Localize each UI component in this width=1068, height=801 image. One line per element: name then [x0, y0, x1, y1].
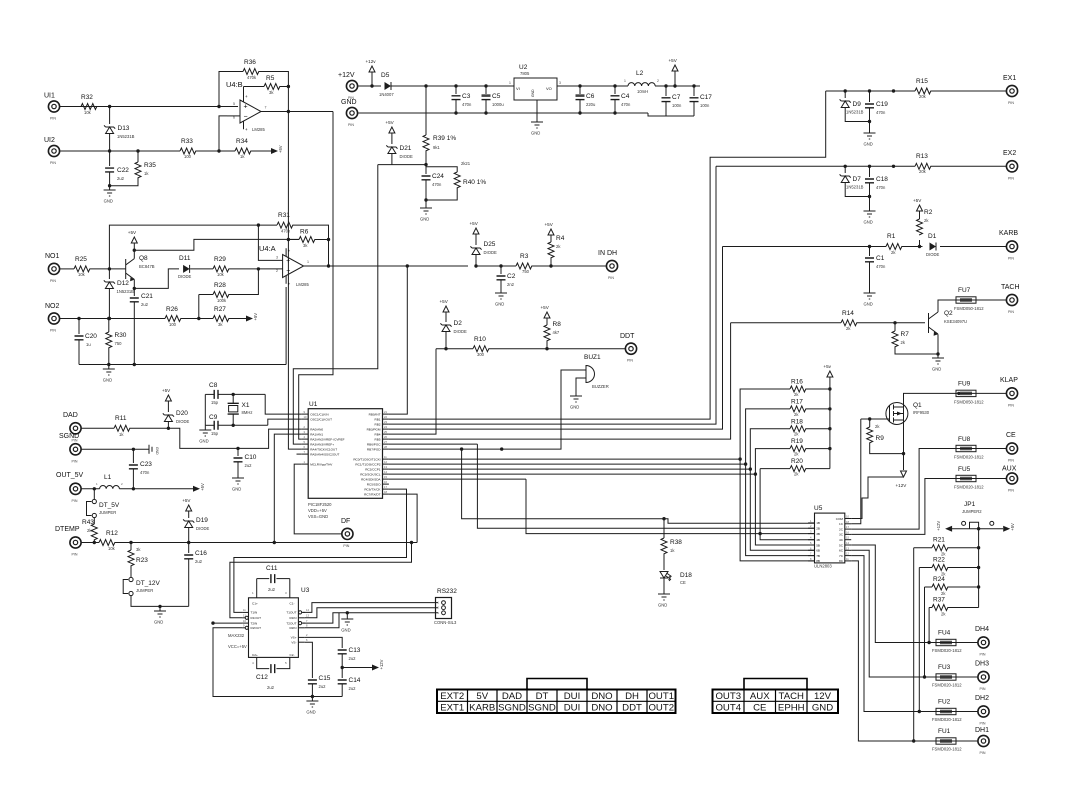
bracket DT DUI	[527, 679, 587, 690]
transistor Q2	[929, 312, 939, 334]
wire	[81, 542, 99, 544]
svg-text:DIODE: DIODE	[484, 250, 497, 255]
svg-text:FSMD050-1812: FSMD050-1812	[954, 400, 984, 405]
pin +12V	[346, 80, 357, 91]
svg-text:8MHz: 8MHz	[242, 410, 253, 415]
pin SGND	[70, 444, 81, 455]
ground	[199, 430, 211, 436]
svg-text:OUT4: OUT4	[715, 703, 741, 714]
junction	[311, 695, 314, 698]
wire	[425, 200, 427, 208]
wire	[976, 392, 1006, 394]
svg-text:Q1: Q1	[913, 402, 922, 409]
junction	[892, 89, 895, 92]
svg-text:R34: R34	[236, 138, 248, 145]
svg-text:D7: D7	[853, 176, 862, 183]
svg-text:DT: DT	[536, 691, 549, 702]
wire	[806, 388, 830, 390]
wire	[293, 225, 329, 239]
wire	[131, 596, 189, 607]
wire	[199, 294, 213, 296]
pin DH4	[978, 637, 989, 648]
svg-text:MCLR/Vpp/THV: MCLR/Vpp/THV	[310, 462, 333, 466]
svg-text:D18: D18	[680, 572, 692, 579]
svg-text:C6: C6	[586, 93, 595, 100]
svg-text:+12V: +12V	[896, 483, 908, 488]
svg-text:PIN: PIN	[1008, 459, 1014, 463]
wire	[976, 478, 1006, 480]
svg-text:+5V: +5V	[440, 299, 449, 304]
wire	[115, 542, 417, 544]
svg-text:RS232: RS232	[437, 588, 457, 595]
wire	[389, 323, 731, 439]
wire	[188, 543, 190, 554]
svg-text:+5V: +5V	[913, 198, 922, 203]
wire	[976, 299, 1006, 301]
pin KLAP	[1006, 388, 1017, 399]
wire	[445, 312, 447, 322]
svg-text:470k: 470k	[281, 229, 291, 234]
svg-text:+12v: +12v	[366, 59, 377, 64]
wire	[134, 269, 179, 289]
svg-text:U4:B: U4:B	[226, 80, 243, 89]
svg-text:DAD: DAD	[63, 412, 78, 419]
wire	[948, 586, 979, 588]
svg-text:GND: GND	[306, 710, 315, 715]
pin TACH	[1006, 294, 1017, 305]
svg-text:100: 100	[184, 154, 192, 159]
junction	[158, 605, 161, 608]
wire	[392, 85, 515, 87]
wire	[261, 111, 333, 113]
wire	[663, 519, 665, 538]
pin OUT_5V	[70, 483, 81, 494]
junction	[460, 447, 463, 450]
svg-text:PIN: PIN	[980, 751, 986, 755]
junction	[977, 566, 980, 569]
svg-text:D11: D11	[179, 255, 191, 262]
svg-text:R12: R12	[106, 530, 118, 537]
junction	[892, 165, 895, 168]
svg-text:R21: R21	[933, 537, 945, 544]
svg-text:C11: C11	[266, 565, 278, 572]
wire	[931, 90, 1006, 92]
wire	[276, 578, 289, 580]
wire	[952, 528, 1003, 530]
junction	[287, 85, 290, 88]
junction	[844, 165, 847, 168]
junction	[93, 487, 96, 490]
wire	[133, 279, 135, 296]
wire	[328, 240, 330, 267]
wire	[108, 269, 110, 279]
wire	[445, 332, 447, 349]
svg-text:1N5231B: 1N5231B	[846, 110, 864, 115]
wire	[188, 528, 190, 543]
svg-text:RA3/AN3/VREF+: RA3/AN3/VREF+	[310, 442, 334, 446]
svg-text:2u2: 2u2	[349, 656, 357, 661]
svg-text:RC3/SCK/SCL: RC3/SCK/SCL	[360, 472, 381, 476]
wire to D25	[407, 265, 468, 267]
svg-text:X1: X1	[242, 402, 250, 409]
svg-text:BC847B: BC847B	[139, 264, 155, 269]
wire	[869, 91, 871, 102]
svg-text:C23: C23	[140, 461, 152, 468]
wire	[546, 341, 548, 349]
wire	[755, 449, 790, 475]
svg-text:7B: 7B	[816, 554, 820, 558]
svg-text:R29: R29	[214, 256, 226, 263]
svg-text:R37: R37	[933, 597, 945, 604]
wire	[204, 394, 206, 425]
svg-text:4k7: 4k7	[553, 330, 560, 335]
wire	[259, 72, 288, 87]
junction	[749, 467, 752, 470]
svg-text:C1: C1	[876, 255, 885, 262]
wire	[389, 448, 462, 450]
wire	[219, 72, 243, 107]
ground tap (rotated)	[149, 445, 152, 454]
wire	[845, 183, 869, 197]
svg-text:KARB: KARB	[469, 703, 495, 714]
svg-text:C14: C14	[349, 677, 361, 684]
svg-text:470n: 470n	[876, 185, 886, 190]
svg-text:R38: R38	[670, 539, 682, 546]
pin DAD	[70, 423, 81, 434]
wire	[462, 370, 586, 449]
svg-text:2u2: 2u2	[245, 463, 253, 468]
pin AUX	[1006, 473, 1017, 484]
svg-text:R26: R26	[166, 306, 178, 313]
pin DH3	[978, 671, 989, 682]
svg-text:GND: GND	[495, 302, 504, 307]
svg-text:1B: 1B	[816, 521, 820, 525]
svg-text:+5V: +5V	[278, 145, 283, 153]
wire	[198, 295, 200, 319]
svg-text:2: 2	[276, 269, 278, 273]
svg-text:470n: 470n	[876, 110, 886, 115]
wire	[232, 414, 234, 425]
svg-text:NO1: NO1	[45, 253, 60, 260]
wire	[389, 478, 526, 480]
svg-text:C22: C22	[117, 167, 129, 174]
svg-text:20k: 20k	[919, 94, 927, 99]
svg-text:VS+: VS+	[291, 636, 297, 640]
wire	[167, 401, 169, 412]
svg-text:LM285: LM285	[252, 127, 265, 132]
svg-text:FU1: FU1	[938, 728, 951, 735]
junction	[902, 452, 905, 455]
junction	[927, 641, 930, 644]
wire	[188, 511, 190, 518]
junction	[754, 472, 757, 475]
wire	[389, 473, 756, 475]
wire	[425, 86, 427, 135]
wire	[81, 488, 100, 490]
svg-text:T1OUT: T1OUT	[286, 611, 296, 615]
wire	[78, 340, 80, 365]
junction	[549, 264, 552, 267]
wire	[60, 106, 238, 108]
svg-text:C4: C4	[621, 93, 630, 100]
wire	[723, 246, 887, 248]
wire	[436, 348, 473, 350]
wire	[746, 409, 790, 464]
junction	[474, 264, 477, 267]
junction	[545, 347, 548, 350]
wire	[956, 676, 978, 678]
wire	[315, 239, 329, 241]
svg-text:2u2: 2u2	[267, 685, 275, 690]
wire	[389, 349, 436, 434]
junction	[977, 546, 980, 549]
wire	[851, 479, 956, 535]
wire	[389, 266, 407, 414]
junction	[692, 84, 695, 87]
svg-text:DIODE: DIODE	[454, 329, 467, 334]
inductor L1	[100, 486, 120, 489]
svg-text:CE: CE	[1006, 432, 1016, 439]
wire	[844, 91, 846, 98]
wire	[550, 258, 552, 266]
svg-text:TACH: TACH	[779, 691, 804, 702]
svg-text:FSMD020-1812: FSMD020-1812	[954, 455, 984, 460]
svg-text:PIN: PIN	[980, 653, 986, 657]
wire	[731, 322, 841, 324]
wire	[976, 448, 1006, 450]
pin GND	[346, 107, 357, 118]
junction	[136, 149, 139, 152]
svg-text:15p: 15p	[211, 431, 219, 436]
svg-text:2B: 2B	[816, 527, 820, 531]
ground	[232, 478, 244, 484]
wire	[305, 642, 313, 678]
svg-text:R7: R7	[901, 331, 910, 338]
svg-text:C20: C20	[85, 333, 97, 340]
svg-text:+5V: +5V	[128, 230, 137, 235]
svg-text:+5V: +5V	[200, 483, 205, 491]
svg-text:EPHH: EPHH	[778, 703, 805, 714]
inductor L2	[628, 83, 655, 86]
svg-text:C9: C9	[209, 414, 218, 421]
wire inverting input	[219, 116, 227, 151]
resistor R16	[790, 386, 806, 392]
connector RS232	[436, 598, 452, 619]
svg-text:10mH: 10mH	[637, 89, 648, 94]
svg-text:220u: 220u	[586, 102, 596, 107]
svg-text:D21: D21	[400, 145, 412, 152]
diode D1	[930, 243, 937, 251]
wire	[526, 479, 815, 533]
svg-text:R1OUT: R1OUT	[251, 616, 262, 620]
svg-text:DNO: DNO	[591, 703, 612, 714]
svg-text:DH2: DH2	[975, 695, 989, 702]
wire	[956, 642, 978, 644]
svg-text:CONN-SIL3: CONN-SIL3	[434, 620, 457, 625]
bracket AUX TACH	[744, 679, 807, 690]
svg-text:RA2/AN2/VREF-/CVREF: RA2/AN2/VREF-/CVREF	[310, 437, 344, 441]
wire	[579, 100, 581, 113]
svg-text:RA4/T0CKI/C1OUT: RA4/T0CKI/C1OUT	[310, 447, 337, 451]
wire	[132, 449, 134, 463]
wire	[663, 554, 665, 570]
svg-text:PIN: PIN	[608, 276, 614, 280]
svg-text:1000u: 1000u	[492, 102, 504, 107]
wire	[476, 265, 516, 267]
wire	[425, 180, 427, 200]
svg-text:GND: GND	[864, 302, 873, 307]
svg-text:TACH: TACH	[1001, 284, 1020, 291]
wire	[287, 87, 289, 112]
wire	[79, 364, 286, 366]
wire	[914, 547, 932, 549]
svg-text:R16: R16	[791, 379, 803, 386]
wire	[258, 268, 282, 270]
wire	[108, 289, 110, 319]
svg-text:C2-: C2-	[290, 653, 295, 657]
wire	[130, 543, 132, 551]
svg-text:2u2: 2u2	[349, 686, 357, 691]
svg-text:+12V: +12V	[338, 72, 355, 79]
svg-text:R27: R27	[214, 306, 226, 313]
svg-text:GND: GND	[812, 703, 833, 714]
wire	[299, 112, 333, 440]
wire	[265, 394, 302, 414]
wire	[929, 607, 932, 609]
wire	[274, 434, 302, 542]
wire	[426, 188, 457, 200]
svg-text:1N5231B: 1N5231B	[846, 185, 864, 190]
wire	[81, 427, 114, 429]
jumper DT_12V	[129, 577, 133, 581]
svg-text:C17: C17	[700, 94, 712, 101]
wire	[869, 108, 871, 133]
wire	[829, 377, 831, 469]
svg-text:RA5/AN4/SS/C2OUT: RA5/AN4/SS/C2OUT	[310, 452, 339, 456]
svg-text:FSMD020-1812: FSMD020-1812	[932, 747, 962, 752]
junction	[868, 120, 871, 123]
svg-text:BUZ1: BUZ1	[584, 354, 601, 361]
svg-text:OSC1/CLKIN: OSC1/CLKIN	[310, 412, 328, 416]
wire	[665, 86, 667, 96]
svg-text:D20: D20	[176, 410, 188, 417]
svg-text:AUX: AUX	[1002, 466, 1017, 473]
svg-text:JP1: JP1	[964, 501, 976, 508]
wire	[268, 419, 302, 425]
wire	[614, 100, 616, 113]
svg-text:R28: R28	[214, 282, 226, 289]
wire	[869, 419, 871, 427]
svg-text:OSC2/CLKOUT: OSC2/CLKOUT	[310, 417, 332, 421]
junction	[662, 517, 665, 520]
wire	[485, 86, 487, 94]
wire	[108, 365, 110, 370]
wire	[342, 667, 372, 669]
svg-text:VSS=GND: VSS=GND	[308, 514, 328, 519]
resistor R34	[235, 148, 251, 154]
svg-text:+5V: +5V	[162, 388, 171, 393]
svg-text:R9: R9	[876, 435, 885, 442]
wire	[389, 468, 750, 470]
svg-text:KLAP: KLAP	[1000, 377, 1018, 384]
svg-text:GND: GND	[154, 620, 163, 625]
svg-text:IRF9530: IRF9530	[913, 410, 930, 415]
wire riser down to U5 5B	[755, 474, 814, 545]
svg-text:1N4007: 1N4007	[379, 92, 394, 97]
power +5V	[271, 148, 278, 154]
fuse FU4	[936, 639, 956, 645]
wire	[108, 348, 110, 365]
resistor R14	[841, 320, 857, 326]
resistor R17	[790, 406, 806, 412]
svg-text:RB7/PGD: RB7/PGD	[367, 447, 381, 451]
svg-text:+12V: +12V	[936, 521, 941, 531]
wire	[391, 154, 393, 165]
wire	[60, 150, 180, 152]
wire	[133, 243, 135, 250]
svg-text:R2IN: R2IN	[289, 626, 296, 630]
svg-text:750: 750	[115, 341, 123, 346]
pin CE	[1006, 443, 1017, 454]
wire	[870, 443, 904, 454]
wire	[389, 494, 417, 542]
pin DH2	[978, 706, 989, 717]
svg-text:1N5231B: 1N5231B	[117, 134, 135, 139]
LED D18	[660, 572, 668, 579]
wire	[455, 100, 457, 113]
svg-text:MAX232: MAX232	[228, 633, 245, 638]
svg-text:R17: R17	[791, 399, 803, 406]
wire	[485, 100, 487, 113]
svg-text:470n: 470n	[140, 470, 150, 475]
junction	[828, 387, 831, 390]
resistor R19	[790, 446, 806, 452]
wire	[232, 394, 234, 403]
power +5V	[544, 312, 550, 318]
wire	[303, 613, 438, 623]
wire	[550, 235, 552, 242]
wire	[869, 183, 871, 211]
svg-text:R32: R32	[81, 94, 93, 101]
svg-text:+: +	[245, 94, 248, 99]
svg-text:RB0/INT: RB0/INT	[369, 412, 381, 416]
resistor R43	[91, 524, 97, 540]
svg-text:EX1: EX1	[1003, 75, 1016, 82]
svg-text:3B: 3B	[816, 532, 820, 536]
wire	[857, 322, 925, 324]
wire	[425, 151, 427, 165]
wire	[109, 172, 111, 186]
wire	[844, 166, 846, 173]
svg-text:R23: R23	[136, 557, 148, 564]
svg-text:RB4: RB4	[374, 432, 380, 436]
svg-text:EXT2: EXT2	[440, 691, 464, 702]
svg-text:RC2/CCP1: RC2/CCP1	[365, 467, 381, 471]
wire riser down to U5 7B	[746, 464, 815, 555]
svg-text:PIN: PIN	[72, 459, 78, 463]
svg-text:R24: R24	[933, 576, 945, 583]
wire	[425, 165, 427, 174]
wire	[750, 429, 790, 469]
wire	[894, 323, 896, 331]
wire	[455, 86, 457, 94]
wire	[861, 418, 890, 420]
svg-text:+5V: +5V	[385, 120, 394, 125]
wire	[237, 448, 239, 456]
junction	[341, 666, 344, 669]
pin UI2	[48, 145, 59, 156]
wire	[500, 280, 502, 293]
